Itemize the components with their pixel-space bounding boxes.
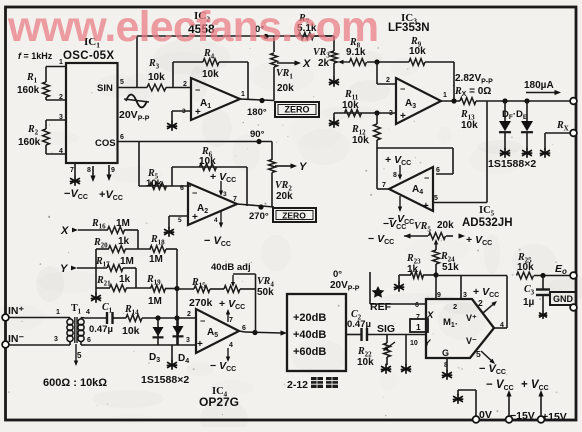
svg-text:V⁻: V⁻ <box>466 336 477 346</box>
svg-text:3: 3 <box>59 114 63 121</box>
svg-text:3: 3 <box>182 108 186 115</box>
svg-text:6: 6 <box>120 134 124 141</box>
svg-text:4: 4 <box>59 148 63 155</box>
svg-text:0.47µ: 0.47µ <box>347 319 371 330</box>
svg-text:600Ω : 10kΩ: 600Ω : 10kΩ <box>43 377 107 389</box>
svg-text:4: 4 <box>86 309 90 316</box>
svg-text:9: 9 <box>111 167 115 174</box>
svg-text:4: 4 <box>214 217 218 224</box>
svg-text:+15V: +15V <box>542 411 567 423</box>
svg-text:6: 6 <box>180 185 184 192</box>
svg-text:10k: 10k <box>122 325 140 337</box>
svg-text:1k: 1k <box>119 274 131 285</box>
svg-text:−: − <box>400 84 405 94</box>
svg-text:o: o <box>562 267 567 276</box>
svg-text:51k: 51k <box>442 262 459 273</box>
svg-text:2-12: 2-12 <box>287 379 308 391</box>
svg-text:10k: 10k <box>202 69 219 80</box>
svg-text:COS: COS <box>95 138 116 149</box>
svg-text:160k: 160k <box>18 137 41 148</box>
svg-text:+20dB: +20dB <box>293 312 326 324</box>
svg-text:5: 5 <box>476 349 481 359</box>
svg-text:0V: 0V <box>479 409 492 421</box>
svg-text:4: 4 <box>229 342 233 349</box>
svg-text:6: 6 <box>436 167 440 174</box>
svg-text:−: − <box>192 188 197 198</box>
svg-text:2k: 2k <box>318 58 330 69</box>
svg-text:20k: 20k <box>277 83 294 94</box>
svg-text:270k: 270k <box>189 297 213 309</box>
svg-text:1µ: 1µ <box>523 297 535 308</box>
svg-text:10: 10 <box>410 340 418 347</box>
svg-text:LF353N: LF353N <box>388 22 430 34</box>
svg-text:5: 5 <box>77 351 82 360</box>
svg-text:2: 2 <box>59 94 63 101</box>
svg-text:10k: 10k <box>357 357 374 368</box>
svg-text:7: 7 <box>229 317 233 324</box>
svg-text:10k: 10k <box>342 100 359 111</box>
svg-text:1M: 1M <box>120 256 134 267</box>
svg-text:1k: 1k <box>118 236 130 247</box>
svg-text:+60dB: +60dB <box>293 346 326 358</box>
svg-text:OP27G: OP27G <box>199 395 239 409</box>
svg-text:1M: 1M <box>148 296 162 307</box>
svg-text:8: 8 <box>393 172 397 179</box>
svg-text:+: + <box>400 111 406 122</box>
svg-text:3: 3 <box>54 336 58 343</box>
svg-text:IN⁻: IN⁻ <box>8 333 25 345</box>
svg-text:ZERO: ZERO <box>282 211 306 221</box>
svg-text:1S1588×2: 1S1588×2 <box>141 374 189 386</box>
svg-text:1: 1 <box>443 92 447 99</box>
svg-text:10k: 10k <box>146 178 163 189</box>
svg-text:−: − <box>424 173 429 183</box>
svg-text:0.47µ: 0.47µ <box>89 324 113 335</box>
svg-text:2: 2 <box>478 298 483 308</box>
svg-text:G: G <box>442 348 449 358</box>
svg-text:7: 7 <box>70 167 74 174</box>
svg-text:5: 5 <box>178 217 182 224</box>
svg-text:10k: 10k <box>352 135 369 146</box>
svg-text:SIN: SIN <box>97 83 113 94</box>
svg-text:6: 6 <box>87 337 91 344</box>
svg-text:7: 7 <box>382 182 386 189</box>
svg-text:7: 7 <box>416 314 420 321</box>
svg-text:2: 2 <box>187 311 191 318</box>
svg-text:1: 1 <box>241 91 245 98</box>
svg-text:0°: 0° <box>333 269 342 280</box>
svg-text:50k: 50k <box>257 287 274 298</box>
svg-text:SIG: SIG <box>377 323 395 335</box>
svg-text:1: 1 <box>416 322 421 332</box>
svg-text:2: 2 <box>386 77 390 84</box>
svg-text:X: X <box>302 58 311 70</box>
svg-text:10k: 10k <box>517 262 534 273</box>
svg-text:2: 2 <box>183 81 187 88</box>
svg-text:+: + <box>423 201 429 212</box>
svg-text:20k: 20k <box>276 191 293 202</box>
svg-text:180µA: 180µA <box>524 80 554 91</box>
svg-text:270°: 270° <box>249 211 269 222</box>
svg-text:10k: 10k <box>199 156 216 167</box>
svg-text:IN⁺: IN⁺ <box>8 305 25 317</box>
svg-text:10k: 10k <box>148 72 165 83</box>
svg-text:5: 5 <box>434 195 438 202</box>
svg-text:180°: 180° <box>247 107 267 118</box>
svg-text:RX = 0Ω: RX = 0Ω <box>454 86 491 98</box>
svg-text:10k: 10k <box>409 46 426 57</box>
svg-text:−: − <box>200 316 205 326</box>
svg-text:6: 6 <box>415 302 419 309</box>
svg-text:90°: 90° <box>250 129 265 140</box>
svg-text:40dB adj: 40dB adj <box>211 262 251 273</box>
svg-text:1S1588×2: 1S1588×2 <box>488 158 536 170</box>
svg-text:f = 1kHz: f = 1kHz <box>18 51 53 61</box>
svg-text:+40dB: +40dB <box>293 329 326 341</box>
svg-text:+: + <box>197 339 203 350</box>
svg-text:3: 3 <box>186 337 190 344</box>
svg-text:AD532JH: AD532JH <box>462 217 513 229</box>
svg-text:2: 2 <box>453 302 457 311</box>
svg-text:20k: 20k <box>437 220 454 231</box>
svg-text:−15V: −15V <box>510 410 535 422</box>
svg-text:ZERO: ZERO <box>284 105 309 115</box>
svg-text:REF: REF <box>370 301 392 313</box>
svg-text:10k: 10k <box>461 120 478 131</box>
svg-text:−: − <box>195 85 200 95</box>
svg-text:160k: 160k <box>17 85 40 96</box>
svg-text:V⁺: V⁺ <box>466 313 477 323</box>
svg-text:1: 1 <box>56 309 60 316</box>
svg-text:www.elecfans.com: www.elecfans.com <box>7 3 378 51</box>
svg-text:7: 7 <box>233 196 237 203</box>
svg-text:4: 4 <box>500 322 504 329</box>
svg-text:OSC-05X: OSC-05X <box>63 50 114 62</box>
svg-text:X: X <box>60 225 69 237</box>
svg-text:3: 3 <box>223 191 227 198</box>
svg-text:GND: GND <box>553 294 574 304</box>
svg-text:5: 5 <box>120 79 124 86</box>
svg-text:1M: 1M <box>149 254 163 265</box>
svg-text:1M: 1M <box>116 218 130 229</box>
svg-text:8: 8 <box>87 167 91 174</box>
